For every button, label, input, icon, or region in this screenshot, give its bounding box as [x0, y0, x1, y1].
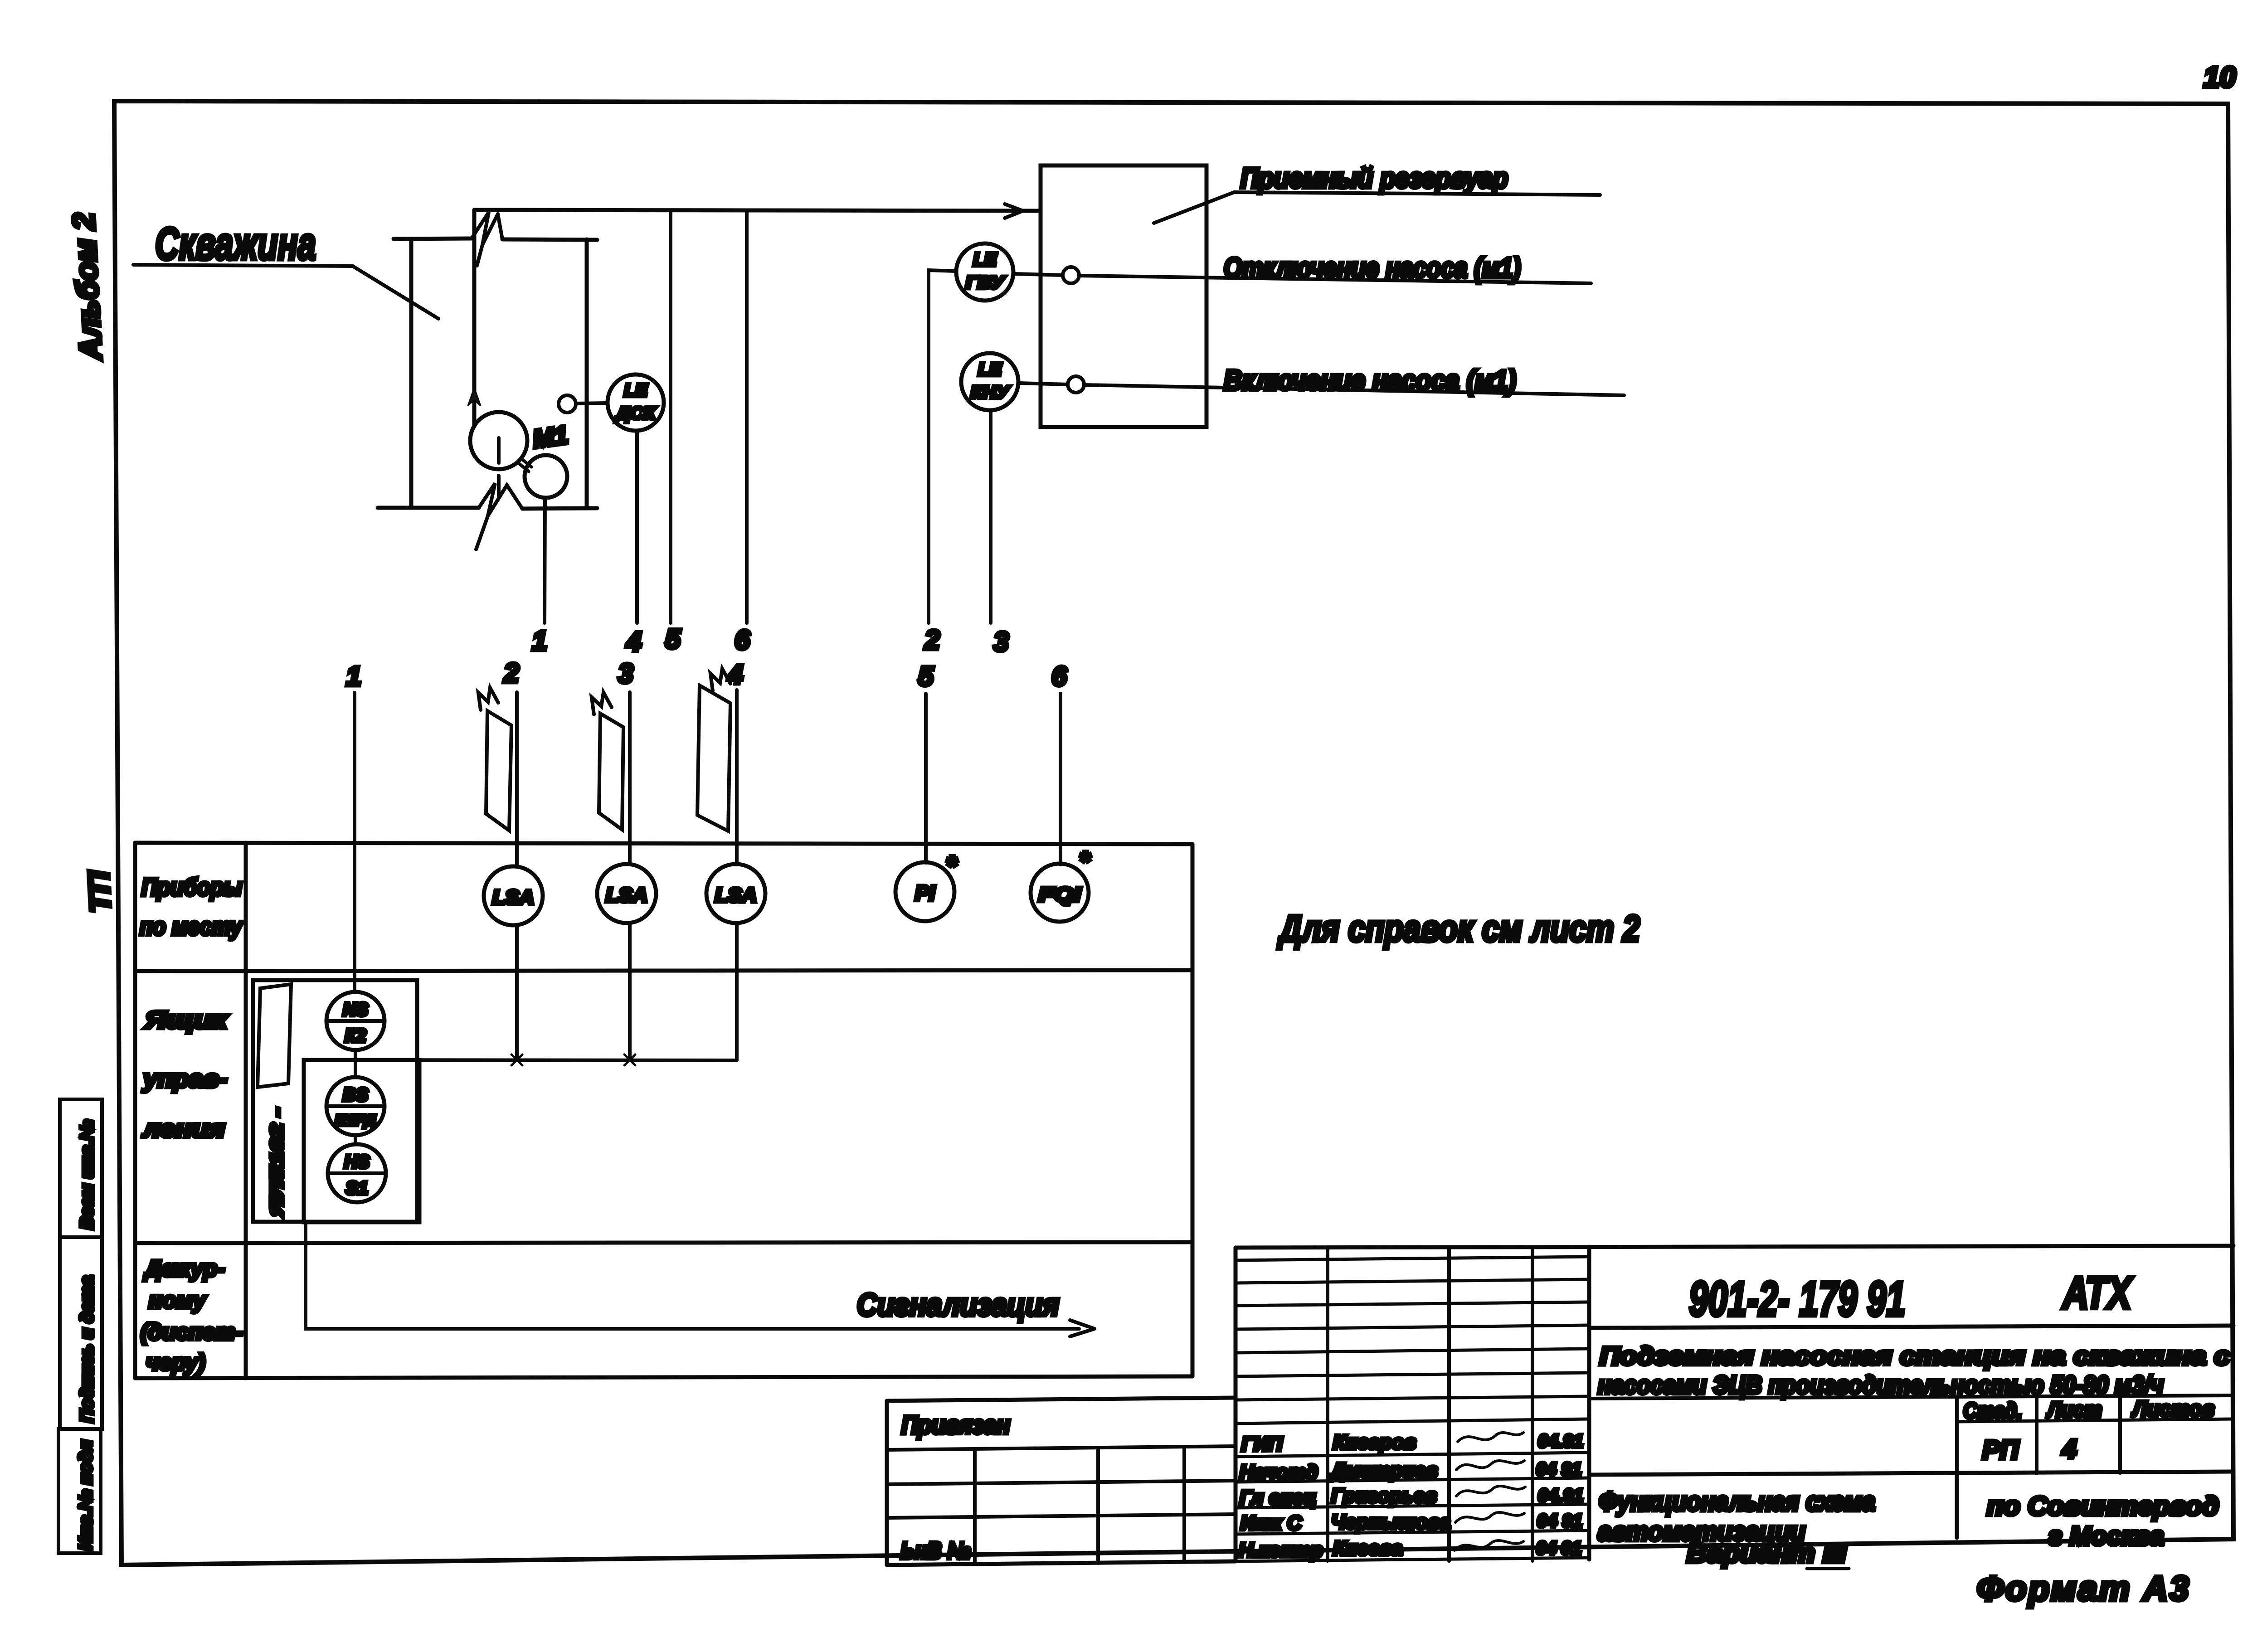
svg-text:3: 3 [993, 627, 1008, 657]
wire 1 second run [353, 693, 356, 992]
svg-text:ГИП: ГИП [1241, 1433, 1283, 1455]
Привязан box column lines [975, 1447, 1184, 1564]
svg-text:Приемный резервуар: Приемный резервуар [1241, 163, 1508, 194]
svg-text:2: 2 [503, 658, 519, 688]
well top line [394, 238, 597, 240]
svg-text:4: 4 [626, 627, 641, 657]
svg-text:NS: NS [343, 1000, 368, 1020]
junction tick wire2/bus [511, 1054, 522, 1065]
svg-text:Ящик: Ящик [144, 1006, 229, 1034]
main table outer lines [135, 843, 1192, 1378]
svg-text:LSA: LSA [606, 884, 647, 906]
bubble NS/К2 [326, 992, 384, 1050]
control box inner rect [304, 1060, 419, 1222]
bottom section column divider [1955, 1474, 1959, 1538]
svg-text:Инв.№ подл: Инв.№ подл [76, 1440, 96, 1550]
svg-text:6: 6 [735, 625, 750, 655]
wire 1 from pump down to stub [545, 498, 545, 623]
svg-text:Кнеева: Кнеева [1333, 1537, 1402, 1560]
wire 3 from LE КНУ down [989, 411, 992, 623]
well bottom break symbol [476, 483, 522, 549]
svg-text:Подпись и дата: Подпись и дата [77, 1276, 97, 1423]
instrument LSA circle wire2 [484, 866, 543, 925]
svg-text:LSA: LSA [492, 886, 534, 909]
svg-text:Для справок см лист 2: Для справок см лист 2 [1277, 908, 1640, 949]
instrument LE ДСК circle [608, 374, 664, 431]
signature names column texts [1329, 1431, 1450, 1560]
bubble BS/Е1FД [326, 1077, 384, 1135]
title block left column edge [1234, 1248, 1238, 1561]
title block bottom section divider [1589, 1472, 2233, 1475]
svg-text:Дежур-: Дежур- [143, 1256, 225, 1281]
svg-text:(диспет-: (диспет- [141, 1319, 243, 1345]
line LE ГВУ to electrode and out to label [1014, 274, 1591, 283]
svg-text:Начотд: Начотд [1240, 1461, 1318, 1483]
wire 6 drop from pipe [745, 211, 749, 623]
svg-text:Гл спец: Гл спец [1240, 1487, 1316, 1509]
title block top edge [1236, 1246, 2233, 1248]
pump shaft dashed line [497, 438, 501, 496]
svg-text:АТХ: АТХ [2062, 1268, 2134, 1318]
signature dates [1536, 1431, 1583, 1558]
svg-text:Н.контр: Н.контр [1239, 1539, 1323, 1561]
svg-text:4: 4 [2062, 1434, 2077, 1464]
wire 2 LSA to bus [515, 925, 519, 1060]
svg-text:1: 1 [346, 661, 361, 691]
level tap circle at well [559, 395, 576, 413]
svg-text:ЬнВ №: ЬнВ № [900, 1538, 971, 1564]
svg-text:04 91: 04 91 [1536, 1538, 1581, 1558]
svg-text:Отключение насоса (м1): Отключение насоса (м1) [1224, 253, 1521, 284]
wire 5 second run [924, 694, 928, 863]
svg-text:г Москва: г Москва [2048, 1521, 2164, 1551]
wire 5 drop from pipe [669, 211, 672, 623]
margin box Инв № подл [58, 1429, 101, 1553]
instrument LE ГВУ circle [956, 243, 1013, 301]
discharge pipe to reservoir [474, 210, 1038, 211]
cable marker M on wire 4 [697, 685, 730, 831]
well top break symbol [472, 212, 502, 266]
pump coupling ticks [519, 459, 531, 471]
junction tick wire3/bus [624, 1054, 635, 1065]
svg-text:Сигнализация: Сигнализация [857, 1287, 1059, 1322]
instrument PI circle wire5 [895, 862, 954, 921]
svg-text:черу): черу) [146, 1350, 205, 1375]
upper level electrode circle [1063, 267, 1079, 283]
wire 4 LSA to bus [735, 923, 739, 1060]
empty revision grid rows [1236, 1257, 1589, 1400]
wire 6 second run [1059, 694, 1062, 865]
instrument LE КНУ circle [961, 353, 1018, 410]
svg-text:ному: ному [149, 1288, 207, 1313]
bus to control box [304, 1060, 737, 1060]
svg-text:1: 1 [532, 626, 547, 656]
svg-text:2: 2 [924, 625, 939, 655]
riser pipe vertical [472, 210, 477, 427]
instrument FQI circle wire6 [1031, 864, 1089, 922]
ЯЛ5102 slant plate [258, 984, 291, 1087]
label Приемный резервуар with leader [1154, 192, 1600, 223]
svg-text:HS: HS [344, 1152, 370, 1172]
svg-text:Лист: Лист [2046, 1398, 2102, 1422]
control box outer rect [253, 980, 417, 1222]
svg-text:ГВУ: ГВУ [966, 273, 1006, 292]
instrument LSA circle wire4 [706, 864, 765, 923]
wire 2 from LE ГВУ left and down [929, 270, 956, 623]
svg-text:5: 5 [665, 624, 681, 654]
svg-text:Приборы: Приборы [141, 874, 242, 901]
svg-text:Скважина: Скважина [155, 219, 316, 269]
line LE КНУ to electrode and out to label [1019, 383, 1624, 395]
title block main divider (left of 901 area) [1587, 1247, 1591, 1560]
stage header underline [1957, 1419, 2233, 1422]
title block code row divider [1589, 1326, 2233, 1328]
svg-text:Включение насоса (м1): Включение насоса (м1) [1224, 365, 1516, 396]
wire 2 second run [515, 692, 519, 867]
signature section column lines [1328, 1247, 1532, 1561]
pump M1 pump circle [525, 455, 567, 498]
wire 3 LSA to bus [628, 923, 632, 1060]
wire 3 second run [628, 692, 632, 865]
svg-text:Вариант III: Вариант III [1687, 1539, 1847, 1568]
well bottom line [378, 508, 597, 509]
svg-text:FQI: FQI [1039, 884, 1081, 906]
svg-text:LE: LE [973, 250, 997, 270]
signal arrowhead [1070, 1320, 1095, 1336]
stage table top line [1589, 1395, 2233, 1399]
receiving reservoir rectangle [1041, 165, 1206, 427]
svg-text:ЯЛ5102 -: ЯЛ5102 - [267, 1108, 287, 1217]
svg-text:04 91: 04 91 [1537, 1511, 1582, 1531]
signal wire down from control box [306, 1222, 1079, 1329]
signature squiggles [1455, 1433, 1525, 1550]
svg-text:Е1FД: Е1FД [335, 1112, 376, 1128]
svg-text:Подземная насосная станция: Подземная насосная станция на скважина с [1600, 1341, 2230, 1370]
svg-text:управ-: управ- [142, 1065, 227, 1093]
bubble HS/S1 [328, 1144, 386, 1202]
svg-text:Кисаров: Кисаров [1333, 1431, 1416, 1453]
svg-text:3: 3 [618, 658, 633, 689]
node: label Скважина with leader [133, 219, 438, 319]
svg-text:М1: М1 [531, 420, 570, 453]
link BS to HS [354, 1135, 357, 1144]
riser flow arrowhead [468, 388, 481, 406]
svg-text:6: 6 [1051, 661, 1067, 691]
svg-text:04 91: 04 91 [1536, 1459, 1581, 1479]
cable marker M on wire 2 [486, 711, 511, 831]
Привязан box row lines [887, 1446, 1236, 1518]
svg-text:ления: ления [142, 1115, 225, 1142]
svg-text:10: 10 [2204, 61, 2236, 93]
svg-text:Формат А3: Формат А3 [1977, 1569, 2191, 1608]
second row numbers [346, 658, 1067, 691]
lower level electrode circle [1068, 376, 1084, 393]
svg-text:LE: LE [624, 380, 647, 400]
stage table column lines [1957, 1396, 2120, 1474]
svg-text:по месту: по месту [140, 913, 243, 940]
wire tap to LE ДСК [576, 403, 608, 403]
margin box Подпись и дата [60, 1237, 102, 1429]
margin box Взам инв № [60, 1099, 102, 1237]
svg-text:Чернышова: Чернышова [1331, 1511, 1450, 1533]
wire 4 second run [735, 690, 739, 865]
cable marker M on wire 3 [599, 714, 623, 830]
svg-text:КНУ: КНУ [971, 383, 1011, 402]
svg-text:К2: К2 [345, 1026, 366, 1046]
svg-text:5: 5 [918, 661, 934, 691]
link NS to BS [354, 1050, 357, 1077]
svg-text:по Совинтервод: по Совинтервод [1987, 1492, 2219, 1521]
svg-text:PI: PI [915, 881, 935, 905]
svg-text:Взам инв.№: Взам инв.№ [77, 1120, 97, 1229]
svg-text:Стад.: Стад. [1963, 1399, 2022, 1423]
top stub numbers row [532, 624, 1008, 657]
svg-text:04.91: 04.91 [1538, 1486, 1583, 1506]
svg-text:Дмитриев: Дмитриев [1329, 1459, 1438, 1482]
svg-text:LE: LE [978, 360, 1002, 379]
svg-text:ДСК: ДСК [615, 404, 657, 423]
svg-text:Григорьев: Григорьев [1331, 1485, 1437, 1507]
well casing left wall [409, 239, 414, 508]
svg-text:РП: РП [1982, 1435, 2019, 1465]
svg-text:04.91: 04.91 [1538, 1431, 1583, 1451]
svg-text:Инж С: Инж С [1241, 1512, 1302, 1534]
svg-text:Функциональная схема: Функциональная схема [1599, 1487, 1875, 1516]
wire 4 from LE ДСК down to stub [635, 431, 639, 623]
svg-text:BS: BS [343, 1085, 368, 1105]
svg-text:901-2- 179 91: 901-2- 179 91 [1689, 1271, 1906, 1326]
instrument LSA circle wire3 [597, 864, 656, 923]
well casing right wall [585, 239, 589, 508]
svg-text:*: * [946, 850, 958, 881]
signature row lines [1236, 1419, 1589, 1561]
Привязан box outer [887, 1398, 1236, 1565]
svg-text:*: * [1079, 846, 1091, 876]
pipe arrowhead at reservoir [1003, 204, 1023, 218]
pump M1 motor circle [470, 412, 527, 469]
svg-text:LSA: LSA [715, 884, 757, 906]
svg-text:Привязан: Привязан [901, 1410, 1010, 1439]
svg-text:S1: S1 [346, 1178, 368, 1198]
svg-text:Листов: Листов [2131, 1397, 2214, 1421]
signature roles column texts [1239, 1433, 1323, 1561]
svg-text:ТП: ТП [82, 869, 117, 913]
